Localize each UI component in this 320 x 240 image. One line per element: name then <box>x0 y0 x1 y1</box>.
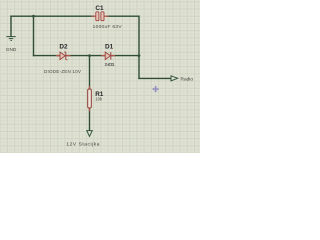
svg-text:GND: GND <box>6 47 17 53</box>
svg-text:D2: D2 <box>59 44 68 51</box>
pin leads R1 (red) <box>89 87 91 111</box>
terminal Radio (output arrow) <box>171 76 178 81</box>
capacitor C1 (polarized, two plates) <box>96 12 104 21</box>
wire: Radio terminal horizontal <box>139 77 171 79</box>
wire: diode row from left corner through D2, D1 to right vertical <box>34 55 140 57</box>
wire: R1 branch down to 12V terminal <box>89 56 91 131</box>
pin leads D1 (red) <box>102 55 115 57</box>
diode D1 <box>105 52 111 60</box>
junction: diode row / R1 branch <box>88 54 91 57</box>
origin marker (purple cross) <box>152 86 159 93</box>
junction: diode row / right vertical <box>138 54 141 57</box>
pin lead C1 right (red) <box>104 15 108 17</box>
junction: top net / branch <box>32 15 35 18</box>
pin lead C1 left (red) <box>92 15 96 17</box>
wire: ground stub <box>10 16 12 36</box>
svg-text:1N4001: 1N4001 <box>104 62 115 67</box>
wire: branch from top net down to diode row <box>33 16 35 55</box>
svg-text:Radio: Radio <box>181 77 194 83</box>
svg-text:C1: C1 <box>95 5 104 12</box>
svg-text:12V Stacijka: 12V Stacijka <box>66 142 99 148</box>
wire: top net from GND corner to C1 left plate <box>11 15 94 17</box>
resistor R1 <box>88 89 92 108</box>
svg-text:10k: 10k <box>95 96 103 101</box>
diode D2 (zener) <box>60 52 67 60</box>
ground <box>6 37 15 41</box>
svg-text:D1: D1 <box>105 44 114 51</box>
schematic background <box>0 0 200 153</box>
wire: C1 right plate to top-right corner, down to Radio corner <box>107 16 140 78</box>
pin leads D2 (red) <box>57 55 71 57</box>
terminal 12V (down arrow) <box>87 131 92 137</box>
svg-text:DIODE-ZEN 10V: DIODE-ZEN 10V <box>44 69 82 74</box>
svg-text:1000uF 63V: 1000uF 63V <box>93 24 123 30</box>
